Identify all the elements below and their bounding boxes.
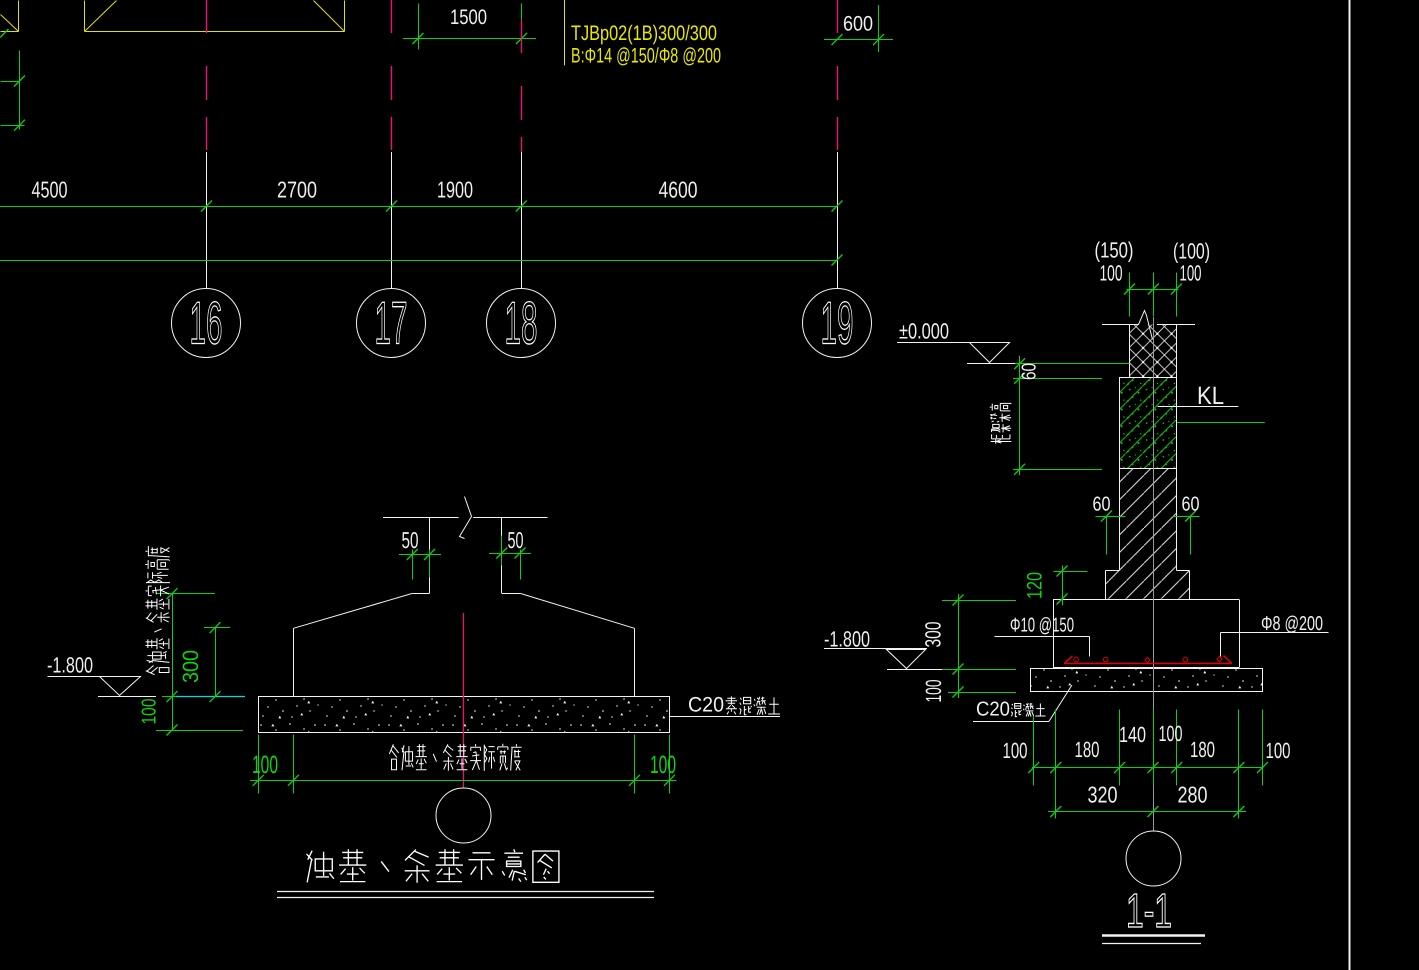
rebar left hook [1064, 656, 1073, 664]
axis 19 centerline [837, 0, 839, 152]
svg-text:50: 50 [402, 527, 419, 553]
svg-text:300: 300 [921, 622, 946, 648]
dim 60 left of base: line+tick+ext [1096, 517, 1126, 555]
svg-text:180: 180 [1075, 737, 1100, 762]
dim 300: vertical [215, 628, 217, 697]
svg-text:60: 60 [1093, 494, 1111, 516]
drawing border line [1349, 0, 1351, 970]
svg-text:100: 100 [1100, 261, 1123, 286]
svg-text:1-1: 1-1 [1126, 885, 1172, 938]
section underline 2 [1102, 943, 1201, 945]
bottom width dim: extension lines [259, 735, 670, 794]
level triangle [100, 677, 141, 696]
bottom dim line row 1 [1032, 767, 1263, 769]
left shoulder [412, 593, 429, 595]
KL leader line [1158, 406, 1239, 408]
dim 120: stub and vertical [1054, 566, 1088, 606]
svg-text:KL: KL [1197, 382, 1224, 410]
svg-text:Φ8 @200: Φ8 @200 [1261, 613, 1323, 635]
title underline 1 [277, 891, 654, 893]
right slope of footing [520, 593, 634, 628]
pad footing corner (left, cut off) [1, 1, 19, 32]
svg-text:600: 600 [843, 13, 873, 36]
left vertical dimension chain [1, 51, 25, 130]
center label: actual width of footings [389, 744, 521, 771]
svg-text:100: 100 [1159, 721, 1183, 746]
svg-text:18: 18 [505, 290, 538, 357]
wall top cut line (left segment) [383, 517, 459, 519]
stirrup diamonds [1145, 657, 1222, 663]
dimension 1500: extension lines [419, 4, 522, 51]
pad footing TJBp02 rectangle with corner diagonals [85, 1, 345, 32]
green leader line [1177, 422, 1265, 424]
rotated label: actual height of footings [145, 546, 170, 675]
footing sides [1054, 600, 1240, 668]
footing left side [293, 628, 295, 696]
magenta centerline of footing [463, 613, 465, 788]
detail bubble circle [436, 788, 491, 843]
svg-text:120: 120 [1024, 572, 1047, 599]
svg-text:17: 17 [375, 290, 408, 357]
svg-text:C20: C20 [976, 699, 1010, 721]
dim 50 right: extension lines [502, 536, 521, 580]
label: C20 plain concrete hanzi [726, 696, 780, 714]
green line at footing bottom [942, 669, 1016, 671]
axis 17 centerline [391, 0, 393, 152]
beam height dim vertical [1019, 356, 1021, 476]
level triangle [887, 650, 926, 669]
axis 18 centerline [521, 20, 523, 152]
grid bubble 16 [172, 289, 241, 358]
svg-text:100: 100 [1266, 738, 1291, 763]
svg-text:140: 140 [1119, 722, 1146, 747]
svg-text:16: 16 [190, 290, 223, 357]
rebar line (red) [1064, 663, 1232, 665]
break spike [1139, 311, 1153, 340]
ground line right segment [1157, 324, 1195, 326]
svg-text:60: 60 [1182, 494, 1200, 516]
axis spacing dimension line row 1 [0, 206, 837, 208]
svg-text:280: 280 [1178, 782, 1208, 808]
svg-text:±0.000: ±0.000 [899, 319, 949, 344]
dim 50 left: dim line [399, 554, 441, 556]
bedding layer with stipple [1031, 669, 1263, 692]
wall face left [429, 517, 431, 593]
lean concrete bedding with stipple [259, 697, 670, 733]
grid bubble 18 [487, 289, 556, 358]
svg-text:60: 60 [1019, 363, 1041, 380]
svg-text:320: 320 [1088, 782, 1118, 808]
widened base hatched [1106, 571, 1190, 600]
svg-text:TJBp02(1B)300/300: TJBp02(1B)300/300 [571, 22, 717, 45]
svg-text:100: 100 [650, 751, 676, 779]
bottom dim line row 2 [1048, 811, 1246, 813]
svg-text:100: 100 [1180, 261, 1202, 286]
axis 18 white segment [521, 152, 523, 289]
dim 50 left: extension lines [413, 550, 430, 580]
Phi8 leader [1221, 633, 1329, 657]
svg-text:100: 100 [921, 680, 946, 703]
axis 19 white segment [837, 152, 839, 289]
KL beam block (green concrete) [1120, 378, 1177, 469]
dimension 1500: dim line [403, 38, 536, 40]
stirrup circles [1074, 657, 1079, 662]
level base tick line [98, 696, 156, 698]
crosshatch block edges [1130, 325, 1177, 378]
right shoulder [502, 593, 520, 595]
tick at plan corner [0, 29, 9, 38]
column hatched shaft [1120, 469, 1177, 571]
svg-text:19: 19 [821, 290, 854, 357]
gray column centerline [1153, 317, 1155, 831]
title text: du-ji tiao-ji schematic [307, 849, 559, 882]
level line [48, 676, 141, 678]
dimension 600: extension line [878, 5, 880, 52]
svg-text:2700: 2700 [277, 177, 317, 203]
axis 17 white segment [391, 152, 393, 289]
dim 60 right of base [1173, 517, 1200, 555]
break mark zigzag [460, 497, 472, 539]
stub at bedding bottom [156, 730, 243, 732]
dim 50 right: dim line [489, 553, 531, 555]
svg-text:4600: 4600 [659, 177, 698, 203]
svg-text:100: 100 [1003, 738, 1028, 763]
shaft edges [1120, 469, 1177, 571]
overall dimension line row 2 [0, 260, 837, 262]
bottom dims: extension lines [1034, 710, 1263, 819]
level line [824, 648, 927, 650]
rotated label: frame beam height [990, 403, 1012, 443]
green line at beam top [1013, 378, 1102, 380]
label diagonal leader into bedding [1049, 685, 1072, 721]
top dims extension lines [1130, 273, 1177, 317]
svg-text:180: 180 [1190, 737, 1215, 762]
masonry crosshatch block [1130, 325, 1177, 378]
axis 16 centerline (magenta dashed) [206, 0, 208, 152]
svg-text:C20: C20 [688, 694, 724, 717]
level line [897, 342, 1010, 344]
stub at slope-top level [156, 593, 215, 595]
green stub at bedding top left [162, 696, 176, 698]
footing height dim vertical [958, 594, 960, 698]
label: C20 concrete hanzi (section 1-1) [1011, 703, 1045, 717]
dimension 600: dim line [824, 39, 893, 41]
height dimension chain vertical [172, 593, 174, 730]
rebar right hook [1224, 656, 1232, 664]
base outline [1106, 571, 1190, 600]
svg-text:(150): (150) [1095, 238, 1134, 263]
level base line [967, 363, 1015, 365]
svg-text:1900: 1900 [437, 177, 473, 203]
grid bubble 19 [803, 289, 872, 358]
green stub at bedding bottom [948, 692, 1016, 694]
svg-text:100: 100 [252, 751, 278, 779]
label leader underline [670, 716, 781, 718]
green line at beam bottom [1013, 469, 1102, 471]
label underline [973, 721, 1049, 723]
svg-text:-1.800: -1.800 [824, 627, 870, 652]
svg-text:-1.800: -1.800 [47, 653, 93, 678]
wall top cut line (right segment) [473, 517, 547, 519]
svg-text:100: 100 [139, 699, 161, 725]
svg-text:Φ10 @150: Φ10 @150 [1010, 615, 1074, 637]
Phi10 leader [995, 637, 1090, 657]
level base line (white part) [887, 669, 942, 671]
dim 300: top stub [204, 627, 230, 629]
green line at zero level [1015, 363, 1130, 365]
axis 16 white segment [206, 152, 208, 289]
svg-text:50: 50 [508, 527, 524, 553]
svg-text:B:Φ14 @150/Φ8 @200: B:Φ14 @150/Φ8 @200 [571, 45, 721, 68]
section underline 1 [1102, 934, 1205, 936]
bottom width dim line [250, 780, 677, 782]
green stub at footing top [942, 600, 1016, 602]
top dim line [1127, 289, 1179, 291]
ground line left segment [1102, 324, 1139, 326]
title underline 2 [277, 897, 654, 899]
svg-text:4500: 4500 [32, 177, 68, 203]
yellow leader line for footing label [564, 0, 566, 65]
level triangle [970, 343, 1010, 363]
section bubble circle [1126, 831, 1181, 886]
cyan level line segment [176, 696, 245, 698]
footing bottom line [1053, 667, 1239, 669]
svg-text:1500: 1500 [450, 6, 487, 29]
footing right side [634, 628, 636, 696]
left slope of footing [293, 593, 412, 628]
footing top line [1053, 599, 1239, 601]
grid bubble 17 [357, 289, 426, 358]
svg-text:300: 300 [178, 650, 203, 683]
wall face right [501, 517, 503, 593]
